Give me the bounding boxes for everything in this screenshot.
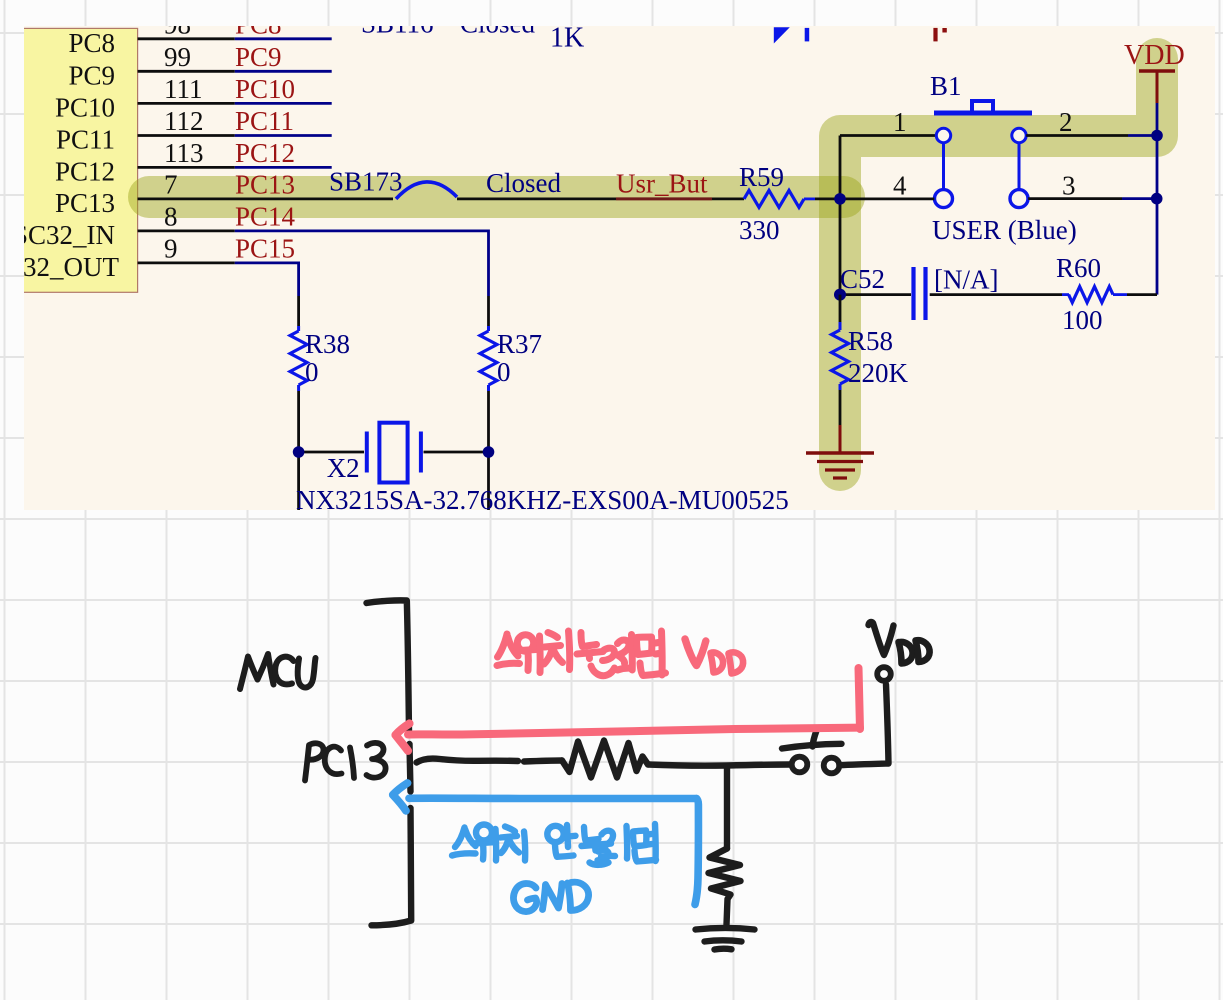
hangul blue wi circle bbox=[476, 825, 492, 841]
hangul blue ri i bbox=[623, 826, 630, 859]
wire Usr_But to R59 bbox=[712, 197, 744, 200]
button B1 actuator bump bbox=[972, 101, 993, 113]
wire R37 to X2 bbox=[487, 391, 490, 452]
crystal X2 bbox=[367, 423, 421, 483]
solder bridge SB173 arc bbox=[396, 182, 457, 199]
label pink D2 bbox=[729, 652, 744, 673]
junction X2 left bbox=[293, 446, 305, 458]
hangul pink myeon yeo ticks bbox=[656, 642, 663, 654]
button B1 pin1 circle bbox=[936, 128, 950, 142]
wire right vertical row1 to row3 bbox=[1156, 136, 1159, 199]
hangul pink myeon n bbox=[640, 663, 666, 676]
label blue N bbox=[543, 884, 563, 910]
hangul blue nul r bbox=[590, 850, 609, 865]
ground bar 2 bbox=[705, 940, 742, 941]
hangul blue ri r bbox=[601, 831, 615, 857]
label VDD letter V bbox=[869, 622, 894, 655]
wire pin112 PC11 black bbox=[138, 134, 235, 137]
power symbol VDD bbox=[1139, 71, 1175, 103]
wire below node X2 right bbox=[487, 452, 490, 510]
wire X2 right lead bbox=[424, 451, 489, 454]
wire net PC15 blue horizontal bbox=[235, 263, 299, 296]
wire pin9 PC15 black bbox=[138, 261, 235, 264]
arrow blue riser bbox=[695, 799, 698, 905]
button B1 pin3 circle bbox=[1010, 190, 1028, 208]
VDD terminal circle bbox=[877, 667, 891, 681]
wire X2 left lead bbox=[299, 451, 364, 454]
switch actuator bbox=[782, 744, 842, 749]
hangul blue myeon yeo bbox=[649, 824, 656, 861]
label MCU letter M bbox=[240, 654, 274, 689]
button B1 pin2 circle bbox=[1012, 128, 1026, 142]
hangul pink ri r bbox=[618, 640, 630, 663]
wire R59 lead right bbox=[804, 197, 815, 200]
wire C52 node down to R58 bbox=[839, 295, 842, 326]
junction node row3 bbox=[1151, 193, 1163, 205]
hangul pink ri r foot bbox=[618, 668, 632, 670]
label VDD letter D1 bbox=[899, 642, 913, 664]
label VDD letter D2 bbox=[916, 640, 930, 662]
hangul pink wi circle bbox=[517, 635, 533, 651]
wire button row3 right blue bbox=[1122, 197, 1157, 200]
wire PC15 down to R38 bbox=[297, 296, 300, 326]
hangul blue nul u bbox=[582, 844, 612, 851]
wire net PC8 blue bbox=[235, 37, 332, 40]
wire pin99 PC9 black bbox=[138, 70, 235, 73]
button B1 actuator bar bbox=[934, 111, 1032, 116]
hangul pink myeon m bbox=[637, 637, 652, 655]
wire pin98 PC8 black bbox=[138, 37, 235, 40]
hangul pink chi legs bbox=[544, 647, 563, 664]
top clipped diode symbol bbox=[774, 27, 809, 43]
wire below node X2 left bbox=[297, 452, 300, 510]
switch actuator tick bbox=[813, 731, 817, 747]
wire net PC11 blue bbox=[235, 134, 332, 137]
hangul pink nul u bbox=[577, 652, 603, 659]
hangul pink ri i bbox=[628, 635, 636, 671]
wire button row4 left bbox=[840, 197, 934, 200]
wire button row1 left bbox=[840, 134, 936, 137]
junction node C52 bbox=[834, 289, 846, 301]
arrow pink shaft bbox=[408, 728, 860, 735]
wire pin8 PC14 black bbox=[138, 229, 235, 232]
resistor R38 bbox=[290, 326, 307, 391]
hangul pink seu s bbox=[498, 634, 519, 657]
resistor hand R bbox=[562, 741, 648, 778]
label pink V bbox=[685, 639, 706, 666]
hangul pink nul r bottom bbox=[591, 666, 615, 676]
hangul pink chi tick bbox=[548, 633, 558, 638]
wire net PC9 blue bbox=[235, 70, 332, 73]
MCU part body U1 bbox=[14, 28, 138, 292]
MCU bracket middle bbox=[410, 744, 411, 792]
hangul blue an circle bbox=[547, 826, 563, 842]
MCU bracket top bbox=[367, 600, 410, 731]
arrow pink riser bbox=[859, 668, 861, 729]
hangul blue myeon m bbox=[633, 831, 646, 847]
wire pin111 PC10 black bbox=[138, 102, 235, 105]
wire PC13 dashed segment 2 bbox=[524, 761, 562, 762]
wire R58 to ground bbox=[839, 390, 842, 425]
hangul pink nul n bbox=[581, 633, 597, 647]
resistor R59 zigzag bbox=[744, 190, 804, 207]
switch contact right bbox=[824, 758, 840, 774]
junction node VDD row1 bbox=[1151, 130, 1163, 142]
wire VDD down blue bbox=[1156, 103, 1159, 136]
wire R60 to C52 bbox=[930, 293, 1062, 296]
button B1 right stem bbox=[1018, 143, 1021, 190]
hangul pink seu eu bbox=[497, 663, 520, 665]
wire R38 to X2 bbox=[297, 391, 300, 452]
label PC13 letter C bbox=[325, 747, 342, 774]
wire junction down bbox=[724, 766, 730, 849]
highlight path vertical and VDD bbox=[840, 59, 1157, 470]
wire button row3 right black bbox=[1028, 197, 1122, 200]
label PC13 letter P bbox=[305, 743, 324, 780]
wire PC14 down to R37 bbox=[487, 296, 490, 326]
wire C52 left bbox=[840, 293, 911, 296]
hangul pink chi i bbox=[569, 631, 570, 670]
wire net PC12 blue bbox=[235, 166, 332, 169]
hangul blue myeon n bbox=[635, 851, 657, 862]
hangul blue an a bbox=[567, 825, 576, 847]
switch contact left bbox=[792, 757, 808, 773]
label MCU letter C bbox=[275, 657, 293, 685]
wire resistor to switch bbox=[648, 765, 791, 766]
wire PC13 to Usr_But bbox=[457, 197, 616, 200]
wire pin113 PC12 black bbox=[138, 166, 235, 169]
hangul pink wi i bbox=[536, 636, 544, 673]
hangul blue an n bbox=[555, 845, 574, 857]
label MCU letter U bbox=[298, 658, 316, 688]
resistor hand pulldown bbox=[709, 849, 741, 925]
arrow pink head bbox=[396, 724, 410, 751]
wire net PC10 blue bbox=[235, 102, 332, 105]
hangul pink nul r top bbox=[603, 648, 615, 660]
capacitor C52 bbox=[914, 267, 926, 320]
ground bar 3 bbox=[715, 946, 732, 953]
wire R59 to node A bbox=[815, 197, 840, 200]
wire button row1 right black bbox=[1026, 134, 1128, 137]
junction node A bbox=[834, 193, 846, 205]
hangul pink myeon yeo stem bbox=[658, 631, 666, 675]
net underline Usr_But bbox=[616, 197, 712, 200]
label blue D bbox=[568, 882, 589, 910]
wire R60 right black bbox=[1127, 293, 1157, 296]
wire node A down to C52 node bbox=[839, 199, 842, 295]
wire switch to VDD bbox=[840, 685, 889, 766]
top clipped red mark bbox=[933, 28, 946, 42]
arrow blue head bbox=[393, 783, 408, 811]
resistor R37 bbox=[480, 326, 497, 391]
hangul blue nul n bbox=[584, 827, 599, 841]
hangul blue chi bbox=[501, 827, 526, 861]
hangul pink chi bar bbox=[545, 646, 561, 648]
wire PC13 dashed segment 1 bbox=[417, 759, 519, 763]
hangul pink wi u bbox=[516, 650, 536, 671]
label PC13 digit 1 bbox=[350, 748, 354, 779]
button B1 pin4 circle bbox=[935, 190, 953, 208]
label PC13 digit 3 bbox=[367, 743, 386, 778]
ground symbol bbox=[806, 425, 874, 478]
hangul blue wi bbox=[473, 829, 496, 861]
resistor R58 bbox=[832, 322, 849, 390]
wire node A up to button row bbox=[839, 136, 842, 199]
wire button row1 right blue bbox=[1128, 134, 1157, 137]
arrow blue shaft bbox=[409, 794, 697, 802]
junction X2 right bbox=[483, 446, 495, 458]
label pink D1 bbox=[711, 653, 724, 673]
resistor R60 zigzag bbox=[1062, 287, 1127, 303]
ground bar 1 bbox=[696, 928, 755, 930]
MCU bracket bottom bbox=[372, 808, 412, 925]
label blue G bbox=[513, 884, 536, 912]
wire pin7 PC13 black bbox=[138, 197, 393, 200]
highlight path PC13 row bbox=[149, 176, 844, 218]
hangul blue seu bbox=[452, 828, 476, 856]
wire net PC14 blue horizontal bbox=[235, 231, 489, 296]
button B1 left stem bbox=[942, 143, 945, 190]
wire right vertical row3 to R60 row bbox=[1156, 199, 1159, 295]
